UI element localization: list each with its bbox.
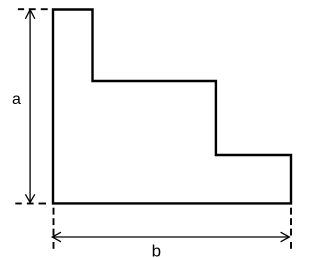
stepped shape outline: [53, 10, 291, 204]
extension line top (dashed, for a): [18, 8, 48, 10]
extension line bottom-left (dashed, for a): [15, 203, 46, 205]
svg-text:b: b: [152, 242, 161, 258]
label a: [12, 91, 21, 108]
svg-text:a: a: [12, 91, 21, 108]
dimension line b (horizontal with open arrowheads): [52, 232, 289, 242]
label b: [152, 242, 161, 258]
dimension line a (vertical with open arrowheads): [25, 10, 34, 203]
extension line bottom-left vertical (dashed, for b): [53, 208, 55, 249]
extension line bottom-right vertical (dashed, for b): [290, 208, 292, 249]
